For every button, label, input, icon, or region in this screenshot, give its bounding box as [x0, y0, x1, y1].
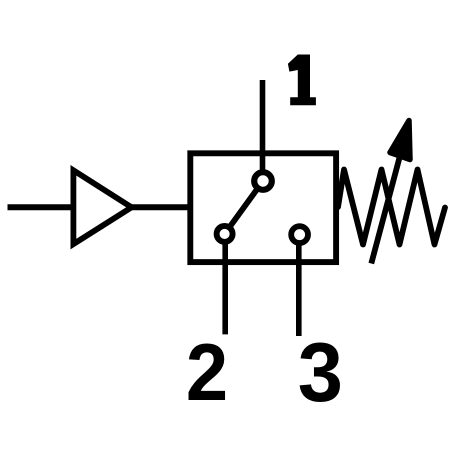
svg-text:3: 3: [298, 326, 343, 419]
adjustment arrow shaft: [371, 152, 401, 264]
spring (adjustable regulator): [338, 170, 445, 245]
wire: port 1 line (top): [260, 80, 266, 181]
wire: port 2 line (bottom left): [222, 234, 228, 335]
wire: left input line: [8, 204, 191, 210]
contact circle bottom-right (port 3): [291, 226, 308, 243]
switch arm: [225, 181, 263, 234]
svg-text:2: 2: [186, 327, 228, 418]
contact circle bottom-left (port 2): [217, 226, 233, 242]
contact circle top (port 1): [254, 172, 272, 190]
amplifier triangle: [73, 170, 131, 244]
valve box: [190, 153, 336, 262]
wire: port 3 line (bottom right): [296, 235, 302, 336]
label port 1: [288, 55, 316, 106]
adjustment arrow head: [390, 121, 410, 160]
